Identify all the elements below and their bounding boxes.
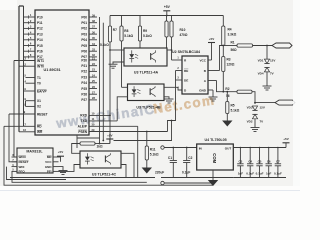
wire left bus outer	[19, 5, 24, 7]
svg-text:1kΩ: 1kΩ	[97, 144, 104, 148]
pin INT1	[14, 60, 35, 62]
svg-text:VCC: VCC	[45, 160, 52, 164]
svg-text:U3 TLP521-4A: U3 TLP521-4A	[134, 70, 159, 74]
power +5V MAX813L	[59, 156, 61, 158]
ground R5	[222, 121, 232, 127]
svg-text:R10: R10	[180, 28, 186, 32]
resistor R6 470	[166, 16, 168, 22]
pin R	[176, 59, 182, 61]
ground VD1/VD4	[263, 85, 272, 87]
svg-text:VD3: VD3	[247, 106, 253, 110]
ground VD3/VD2	[251, 127, 260, 129]
svg-text:0.1uF: 0.1uF	[256, 171, 264, 175]
svg-text:120Ω: 120Ω	[227, 62, 235, 66]
svg-text:R4: R4	[228, 27, 232, 31]
ground U4 COM	[212, 170, 214, 180]
svg-text:PFO: PFO	[19, 170, 26, 174]
resistor R10 470	[171, 16, 173, 22]
svg-text:P15: P15	[37, 44, 43, 48]
wire cap bottom rail	[233, 177, 286, 179]
resistor R1 56	[223, 45, 237, 47]
terminal A flag	[275, 100, 295, 105]
diode VD3 12V	[254, 103, 256, 104]
pin ALE/P	[89, 125, 138, 127]
svg-text:220uF: 220uF	[155, 171, 164, 175]
pin T0	[26, 82, 36, 84]
power +5V out	[283, 142, 290, 144]
wire opto B input top	[122, 86, 128, 88]
wire R1 to terminal	[253, 45, 273, 47]
svg-text:WDO: WDO	[19, 155, 27, 159]
svg-text:ALE/P: ALE/P	[78, 125, 88, 129]
svg-text:7V: 7V	[260, 120, 264, 124]
ground R11	[142, 168, 152, 174]
pin MR	[53, 156, 59, 158]
wire +5V top rail	[110, 15, 223, 17]
svg-text:+5V: +5V	[164, 5, 171, 9]
svg-text:R1: R1	[231, 41, 235, 45]
svg-text:U4 TL750L05: U4 TL750L05	[205, 138, 227, 142]
resistor R5 5.1k pulldown	[226, 92, 228, 102]
resistor R8 5.1k	[121, 16, 123, 27]
pin WR	[19, 131, 35, 133]
svg-text:+5V: +5V	[209, 37, 214, 41]
svg-text:C1: C1	[168, 156, 172, 160]
svg-text:X1: X1	[37, 99, 41, 103]
capacitor C5 0.1uF	[259, 148, 261, 164]
pin DE	[176, 79, 183, 81]
svg-text:RD: RD	[37, 125, 42, 129]
terminal input circle bottom	[161, 181, 164, 184]
pin GND	[53, 166, 59, 168]
pin X1	[28, 100, 35, 102]
svg-text:P05: P05	[81, 44, 87, 48]
capacitor C4 0.1uF	[249, 148, 251, 164]
svg-text:VD4: VD4	[258, 72, 264, 76]
svg-text:0.1uF: 0.1uF	[274, 171, 282, 175]
svg-text:U2 SN75LBC184: U2 SN75LBC184	[172, 50, 200, 54]
wire +5V rail end	[285, 147, 287, 149]
pin PFO	[12, 170, 18, 172]
wire R6 to opto A	[166, 37, 168, 48]
wire U4 bottom rail	[161, 177, 233, 179]
svg-text:+5V: +5V	[283, 137, 288, 141]
svg-text:P24: P24	[81, 81, 87, 85]
svg-text:PSEN: PSEN	[78, 130, 87, 134]
wire A line	[217, 81, 238, 92]
pin INT0	[19, 65, 35, 67]
wire opto C output	[121, 153, 134, 177]
svg-text:0.1uF: 0.1uF	[182, 171, 190, 175]
svg-text:GND: GND	[45, 165, 53, 169]
svg-text:P14: P14	[37, 38, 43, 42]
wire opto B output to U2 D	[164, 87, 182, 90]
resistor R4 3.3k pullup	[222, 16, 224, 27]
svg-text:DE: DE	[184, 78, 188, 82]
pin B	[208, 70, 220, 72]
svg-text:INT0: INT0	[37, 65, 44, 69]
U1 right pins P20-P27	[89, 59, 97, 61]
svg-text:5.1kΩ: 5.1kΩ	[143, 34, 152, 38]
svg-text:3.3kΩ: 3.3kΩ	[228, 32, 237, 36]
wire B line	[220, 46, 224, 71]
resistor R9 5.1k	[139, 16, 141, 27]
capacitor C2 0.1uF	[186, 148, 188, 161]
svg-text:R8: R8	[124, 29, 128, 33]
wire opto C emitter	[121, 165, 126, 178]
svg-text:P16: P16	[37, 50, 43, 54]
wire R10 to U2 R pin	[171, 37, 173, 60]
wire input to U4	[164, 147, 197, 149]
resistor R11 5.1k	[146, 132, 148, 147]
svg-text:VD1: VD1	[258, 59, 264, 63]
optocoupler U3 TLP521-4C	[80, 151, 121, 168]
capacitor C3 1uF	[239, 148, 241, 164]
svg-text:R2: R2	[225, 87, 229, 91]
ground opto B	[165, 98, 174, 100]
svg-text:7V: 7V	[270, 72, 274, 76]
pin PFI	[53, 170, 59, 172]
svg-text:PFI: PFI	[47, 170, 52, 174]
svg-text:P13: P13	[37, 32, 43, 36]
svg-text:GND: GND	[199, 88, 207, 92]
svg-text:MAX813L: MAX813L	[26, 149, 43, 153]
svg-text:WR: WR	[37, 130, 43, 134]
svg-text:56: 56	[226, 94, 230, 98]
svg-text:TXD: TXD	[81, 119, 88, 123]
IC MAX813L supervisor	[17, 148, 53, 173]
wire TXD to opto B	[117, 97, 127, 121]
pin TXD	[89, 120, 117, 122]
wire opto B emitter to ground	[164, 97, 169, 99]
ground opto A	[109, 63, 118, 65]
svg-text:X2: X2	[37, 105, 41, 109]
wire ALE down to rail	[137, 126, 139, 177]
svg-text:12V: 12V	[270, 59, 275, 63]
pin RESET	[9, 113, 35, 115]
svg-text:1uF: 1uF	[266, 171, 272, 175]
wire RD bottom long ground run	[4, 126, 213, 185]
svg-text:P01: P01	[81, 21, 87, 25]
wire P0 bus down	[99, 17, 101, 144]
svg-text:R3: R3	[227, 57, 231, 61]
watermark	[54, 101, 156, 131]
pin WDO	[12, 156, 18, 158]
svg-text:RESET: RESET	[37, 112, 48, 116]
wire gnd pin drop	[76, 135, 78, 148]
optocoupler U3 TLP521-4A	[124, 48, 167, 66]
svg-text:U3 TLP521-4B: U3 TLP521-4B	[136, 106, 161, 110]
svg-text:RXD: RXD	[80, 114, 87, 118]
pin VCC	[53, 161, 59, 163]
pin GND	[208, 89, 213, 91]
svg-text:P06: P06	[81, 50, 87, 54]
power +5V U2	[208, 42, 215, 44]
wire input bottom	[164, 182, 213, 184]
diode VD1 12V	[266, 46, 268, 60]
wire bottom stub	[7, 167, 67, 180]
capacitor C1 220uF	[172, 148, 174, 161]
resistor 1k opto C drive	[95, 143, 110, 145]
svg-text:C4: C4	[248, 159, 252, 163]
svg-text:U1 89C51: U1 89C51	[44, 68, 61, 72]
wire R7 to RXD	[109, 42, 111, 144]
svg-text:EA/VP: EA/VP	[37, 89, 47, 93]
svg-text:T0: T0	[37, 82, 41, 86]
wire X1 X2 link	[25, 101, 27, 107]
svg-text:C5: C5	[258, 159, 262, 163]
svg-text:P21: P21	[81, 64, 87, 68]
terminal input circle top	[161, 146, 164, 149]
power +5V mid	[106, 138, 113, 140]
scan edge	[293, 0, 300, 186]
svg-text:5.1kΩ: 5.1kΩ	[150, 152, 159, 156]
svg-text:P12: P12	[37, 27, 43, 31]
wire R8 to opto B	[121, 41, 123, 87]
pin RE	[176, 70, 183, 72]
pin RXD	[89, 114, 110, 116]
svg-text:WDI: WDI	[19, 165, 25, 169]
wire RESET to MAX813L RESET	[9, 114, 17, 162]
pin T1	[26, 77, 36, 79]
svg-text:RE: RE	[184, 69, 188, 73]
wire PSEN to RE/DE loop	[168, 80, 176, 132]
wire 1k to opto C	[72, 144, 80, 154]
wire OUT rail	[233, 147, 286, 149]
svg-text:P27: P27	[81, 98, 87, 102]
svg-text:R9: R9	[143, 29, 147, 33]
svg-text:12V: 12V	[260, 106, 265, 110]
svg-text:0.1uF: 0.1uF	[246, 171, 254, 175]
svg-text:C7: C7	[276, 159, 280, 163]
svg-text:P03: P03	[81, 32, 87, 36]
svg-text:P26: P26	[81, 93, 87, 97]
svg-text:+5V: +5V	[107, 133, 112, 137]
resistor R2 56	[237, 90, 252, 93]
optocoupler U3 TLP521-4B	[128, 84, 165, 101]
svg-text:P22: P22	[81, 70, 87, 74]
svg-text:RESET: RESET	[19, 160, 29, 164]
svg-text:R5: R5	[231, 103, 235, 107]
wire opto A input top	[110, 49, 124, 51]
ground U2	[212, 90, 214, 97]
svg-text:P00: P00	[81, 15, 87, 19]
pin VCC	[208, 59, 212, 61]
svg-text:470Ω: 470Ω	[180, 33, 188, 37]
svg-text:+5V: +5V	[58, 150, 63, 154]
scan background	[0, 0, 300, 186]
svg-text:COM: COM	[212, 153, 217, 163]
svg-text:T1: T1	[37, 76, 41, 80]
svg-text:R7: R7	[113, 28, 117, 32]
wire RE-DE join	[175, 71, 177, 81]
svg-text:VD2: VD2	[247, 120, 253, 124]
svg-text:VCC: VCC	[199, 58, 206, 62]
svg-text:U3 TLP521-4C: U3 TLP521-4C	[92, 173, 117, 177]
svg-text:5.1kΩ: 5.1kΩ	[100, 43, 109, 47]
capacitor C6 1uF	[268, 148, 270, 164]
svg-text:P10: P10	[37, 15, 43, 19]
pin X2	[28, 105, 35, 107]
resistor R7 5.1k	[109, 16, 111, 27]
capacitor C7 0.1uF	[277, 148, 279, 164]
power +5V top	[163, 10, 170, 12]
pin WDI	[12, 166, 18, 168]
wire INT1 to MAX813L WDO	[14, 61, 17, 158]
diode VD2	[252, 114, 257, 118]
svg-text:P11: P11	[37, 21, 43, 25]
wire P1 bus	[23, 6, 25, 126]
svg-text:OUT: OUT	[225, 146, 232, 150]
wire PFI stub	[59, 165, 81, 172]
svg-text:5.1kΩ: 5.1kΩ	[231, 108, 240, 112]
resistor R3 120 termination	[222, 57, 225, 72]
terminal B flag	[272, 43, 292, 48]
pin RD	[4, 125, 35, 127]
svg-text:R11: R11	[150, 147, 156, 151]
svg-text:C2: C2	[188, 156, 192, 160]
pin RESET	[12, 161, 18, 163]
wire +5V pullup loop	[114, 121, 172, 141]
wire PFO bottom run	[12, 171, 147, 182]
wire opto A input bottom to ground	[113, 62, 124, 64]
pin A	[208, 80, 217, 82]
svg-text:INT1: INT1	[37, 59, 44, 63]
wire R2 to terminal	[252, 92, 275, 103]
pin PSEN	[89, 131, 168, 133]
wire P0 bus down 2	[102, 23, 104, 141]
wire gnd pin run	[77, 137, 100, 139]
svg-text:5.1kΩ: 5.1kΩ	[124, 34, 133, 38]
ground MAX813L	[59, 167, 64, 171]
IC U1 89C51 microcontroller	[35, 10, 89, 135]
svg-text:P02: P02	[81, 27, 87, 31]
svg-text:P20: P20	[81, 58, 87, 62]
svg-text:C3: C3	[239, 159, 243, 163]
wire opto A output	[167, 49, 172, 51]
svg-text:P23: P23	[81, 75, 87, 79]
svg-text:P25: P25	[81, 87, 87, 91]
svg-text:1uF: 1uF	[238, 171, 244, 175]
wire ground rail	[10, 177, 155, 179]
diode VD4	[264, 68, 269, 72]
U1 right pins P00-P07	[89, 16, 97, 18]
svg-text:P04: P04	[81, 38, 87, 42]
pin EA/VP	[24, 90, 36, 92]
U1 left pins P10-P17	[24, 16, 36, 18]
svg-text:56Ω: 56Ω	[231, 48, 238, 52]
svg-text:C6: C6	[267, 159, 271, 163]
